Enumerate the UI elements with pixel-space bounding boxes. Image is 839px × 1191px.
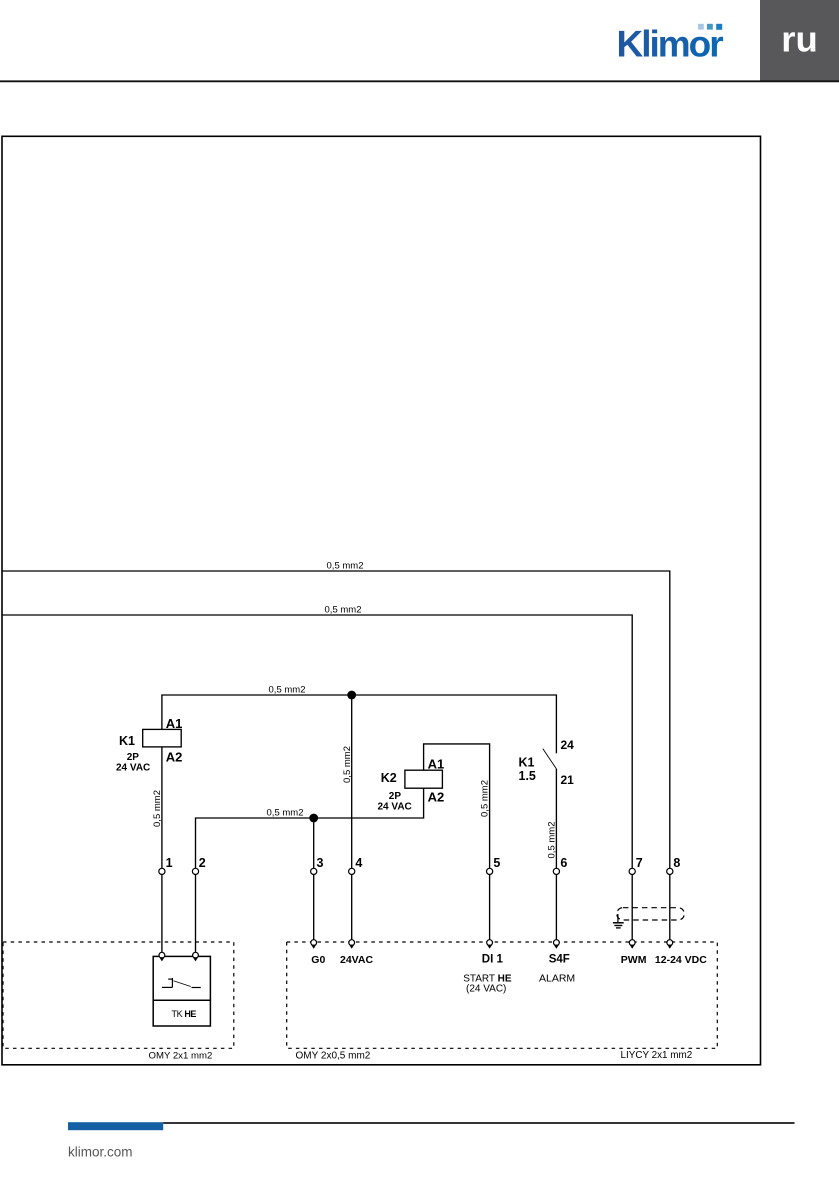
dashed field box controller terminals — [287, 942, 718, 1061]
svg-text:0,5 mm2: 0,5 mm2 — [547, 822, 558, 859]
svg-text:ru: ru — [781, 19, 818, 60]
terminal 8 — [667, 856, 681, 875]
svg-text:OMY 2x1 mm2: OMY 2x1 mm2 — [149, 1050, 213, 1061]
svg-text:LIYCY 2x1 mm2: LIYCY 2x1 mm2 — [621, 1050, 693, 1061]
wire K2 A1 to terminal 5 (DI1) — [424, 744, 490, 942]
relay coil K1 — [116, 716, 182, 774]
thermostat TK HE box — [153, 956, 210, 1026]
svg-text:G0: G0 — [311, 954, 325, 966]
wire K1 A2 to terminal 1 and TK HE — [161, 747, 163, 955]
svg-text:ALARM: ALARM — [539, 973, 575, 985]
svg-text:0,5 mm2: 0,5 mm2 — [269, 685, 306, 696]
svg-text:A2: A2 — [428, 790, 445, 805]
svg-text:4: 4 — [355, 856, 362, 870]
controller pin DI 1 — [463, 940, 512, 995]
wire G0 net: terminal 2 riser to K2 A2 — [196, 788, 424, 955]
footer rule — [163, 1122, 794, 1124]
ground (shield earth) — [613, 914, 624, 928]
logo square 3 — [716, 24, 722, 30]
svg-text:2: 2 — [199, 856, 206, 870]
terminal 6 — [553, 856, 567, 875]
wire net PWM (terminal 7) — [2, 615, 632, 942]
terminal 7 — [629, 856, 643, 875]
svg-text:0,5 mm2: 0,5 mm2 — [480, 780, 491, 817]
controller pin 24VAC — [340, 940, 373, 966]
svg-text:7: 7 — [636, 856, 643, 870]
svg-text:0,5 mm2: 0,5 mm2 — [327, 561, 364, 572]
svg-text:8: 8 — [673, 856, 680, 870]
junction dot node 24VAC/T4 — [347, 691, 356, 700]
controller pin S4F — [539, 940, 575, 985]
svg-text:(24 VAC): (24 VAC) — [466, 984, 506, 995]
svg-text:OMY 2x0,5 mm2: OMY 2x0,5 mm2 — [296, 1050, 371, 1061]
svg-text:24 VAC: 24 VAC — [116, 763, 150, 774]
footer blue bar — [68, 1122, 163, 1130]
wire terminal 3 drop — [313, 818, 315, 942]
svg-text:0,5 mm2: 0,5 mm2 — [267, 808, 304, 819]
svg-text:A1: A1 — [166, 716, 183, 731]
thermal contact symbol inside TK HE — [162, 978, 201, 988]
wire contact 21 to terminal 6 (S4F) — [555, 769, 557, 942]
controller pin 12-24 VDC — [655, 940, 707, 966]
junction dot node G0/T3 — [309, 814, 318, 823]
terminal 3 — [311, 856, 324, 875]
svg-text:21: 21 — [561, 773, 575, 787]
svg-text:TK HE: TK HE — [172, 1009, 197, 1019]
header ru language box — [760, 0, 839, 81]
svg-text:DI 1: DI 1 — [482, 953, 504, 965]
svg-text:PWM: PWM — [621, 954, 647, 966]
svg-text:0,5 mm2: 0,5 mm2 — [342, 746, 353, 783]
terminal 4 — [349, 856, 363, 875]
svg-text:K1: K1 — [119, 734, 135, 748]
svg-text:5: 5 — [493, 856, 500, 870]
svg-text:2P: 2P — [127, 752, 140, 763]
svg-text:3: 3 — [317, 856, 324, 870]
controller pin G0 — [311, 940, 326, 966]
svg-text:K1: K1 — [519, 755, 535, 769]
wire net 12-24VDC (terminal 8) — [2, 571, 670, 942]
svg-text:S4F: S4F — [549, 953, 570, 965]
svg-text:6: 6 — [560, 856, 567, 870]
wire 24VAC supply net to K1 coil A1 and contact 24 — [162, 695, 557, 753]
svg-text:A2: A2 — [166, 750, 183, 765]
logo square 2 — [707, 24, 713, 30]
svg-text:24VAC: 24VAC — [340, 954, 373, 966]
svg-text:12-24 VDC: 12-24 VDC — [655, 954, 707, 966]
svg-text:0,5 mm2: 0,5 mm2 — [325, 605, 362, 616]
svg-text:K2: K2 — [381, 771, 397, 785]
relay contact K1 (24/21) — [519, 738, 575, 787]
relay coil K2 — [378, 757, 445, 813]
controller pin PWM — [621, 940, 647, 966]
logo square 1 — [698, 24, 704, 30]
TK HE pin 2 circle — [193, 952, 199, 961]
dashed field box OMY 2x1 mm2 (TK HE) — [3, 942, 234, 1061]
wire terminal 4 riser — [351, 695, 353, 942]
svg-text:1: 1 — [166, 856, 173, 870]
Klimor logo wordmark — [617, 23, 724, 64]
schematic frame — [2, 136, 761, 1065]
svg-text:24: 24 — [561, 738, 575, 752]
svg-text:2P: 2P — [389, 791, 402, 802]
header rule — [0, 80, 839, 82]
terminal 2 — [192, 856, 205, 875]
terminal 1 — [159, 856, 173, 875]
svg-text:24 VAC: 24 VAC — [378, 802, 412, 813]
cable shield (screen) around PWM / 12-24VDC pair — [617, 908, 685, 920]
svg-text:1.5: 1.5 — [519, 769, 536, 783]
svg-text:0,5 mm2: 0,5 mm2 — [152, 790, 163, 827]
svg-text:A1: A1 — [428, 757, 445, 772]
TK HE pin 1 circle — [159, 952, 165, 961]
terminal 5 — [487, 856, 501, 875]
svg-text:klimor.com: klimor.com — [68, 1145, 133, 1160]
